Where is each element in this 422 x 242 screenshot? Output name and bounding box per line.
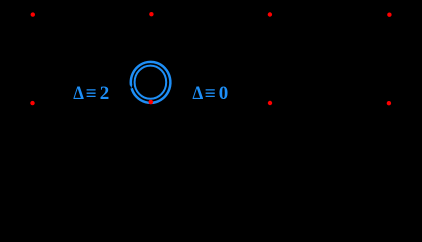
- lattice dot row2 col3: [268, 101, 272, 105]
- svg-text:≡: ≡: [205, 84, 216, 105]
- lattice dot row2 col1: [30, 101, 34, 105]
- blue loop outer winding (near-circle with small gap at left, winding twice): [131, 62, 171, 103]
- lattice dot row1 col4: [387, 13, 391, 17]
- blue loop inner winding: [135, 66, 167, 99]
- lattice dot row1 col3: [268, 12, 272, 16]
- svg-text:≡: ≡: [86, 83, 97, 104]
- lattice dot row2 col2 (marked point encircled by loop): [149, 100, 154, 105]
- lattice dot row1 col2: [149, 12, 153, 16]
- lattice dot row1 col1: [31, 12, 35, 16]
- svg-text:0: 0: [219, 83, 229, 104]
- lattice dot row2 col4: [387, 101, 391, 105]
- svg-text:Δ: Δ: [73, 83, 84, 104]
- blue loop cusp wedge at spiral transition: [130, 85, 132, 89]
- svg-text:2: 2: [100, 83, 110, 104]
- svg-text:Δ: Δ: [192, 83, 203, 104]
